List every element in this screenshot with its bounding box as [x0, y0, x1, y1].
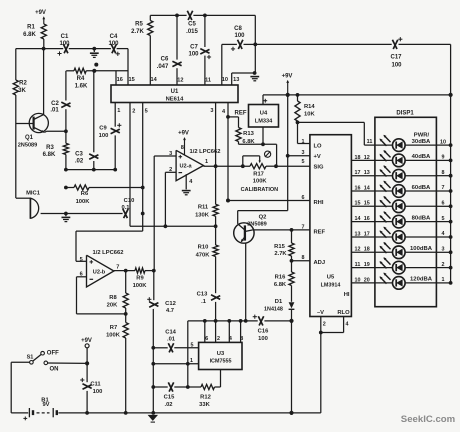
node C6 tap: [175, 14, 179, 18]
pin 13 label: [233, 77, 239, 83]
wire C1 to gnd node: [69, 48, 111, 50]
resistor R9: [133, 268, 154, 289]
svg-text:5: 5: [80, 257, 83, 263]
pin 6 label U5: [302, 195, 305, 201]
wire pin 13 elbow: [232, 73, 256, 85]
pin 1 label U5: [302, 139, 305, 145]
diode D1: [264, 299, 294, 321]
svg-text:6.8K: 6.8K: [23, 32, 36, 38]
node rail 1: [449, 143, 453, 147]
pin 2 label U5: [323, 322, 326, 328]
node C1-C4 junction: [92, 47, 96, 51]
node R15 top: [290, 228, 294, 232]
wire LED6 to rail: [436, 221, 450, 223]
microphone MIC1: [16, 190, 41, 218]
wire right rail: [450, 44, 452, 282]
svg-text:15: 15: [128, 77, 134, 83]
node R8-R7: [124, 312, 128, 316]
wire U5 pin 17 to DISP pin 13: [351, 175, 375, 177]
node pin4 tap: [227, 319, 231, 323]
svg-text:R17: R17: [253, 172, 264, 178]
node rail 10: [449, 281, 453, 285]
wire top-right corner: [254, 15, 256, 73]
potentiometer R17: [241, 156, 279, 193]
svg-text:R10: R10: [198, 245, 209, 251]
pin 2 label U3: [217, 336, 220, 342]
label 80dBA: [412, 215, 431, 221]
wire U2-a +in: [154, 156, 176, 271]
wire U4 top lead: [262, 95, 264, 105]
wire U5 pin 13 to DISP pin 17: [351, 236, 375, 238]
wire R2 to Q1 base: [15, 95, 17, 124]
svg-text:6.8K: 6.8K: [274, 282, 287, 288]
battery B1: [23, 397, 56, 420]
node pin2 tap: [214, 319, 218, 323]
svg-text:.02: .02: [164, 402, 172, 408]
node U4 out: [261, 142, 265, 146]
node rail 6: [449, 220, 453, 224]
svg-text:100: 100: [234, 33, 245, 39]
node R7 gnd: [124, 411, 128, 415]
svg-text:1: 1: [442, 277, 445, 283]
node ADJ: [290, 259, 294, 263]
svg-text:+9V: +9V: [81, 338, 92, 344]
wire C17 row: [255, 43, 450, 45]
svg-text:LM3914: LM3914: [321, 283, 341, 289]
wire gnd vertical: [152, 309, 154, 413]
svg-text:12: 12: [177, 77, 183, 83]
svg-text:U2-a: U2-a: [179, 164, 192, 170]
resistor R4: [74, 68, 88, 89]
wire U3 pin2: [215, 321, 217, 343]
capacitor C10: [121, 198, 134, 218]
svg-text:Q1: Q1: [25, 135, 34, 141]
transistor Q2: [234, 214, 267, 243]
wire pin2 drop: [129, 103, 131, 227]
svg-text:8: 8: [181, 145, 184, 151]
svg-text:5: 5: [302, 159, 305, 165]
pin 15 label: [128, 77, 134, 83]
wire U2-a out: [204, 165, 251, 167]
wire C14 row: [153, 347, 198, 349]
wire pin1 row: [153, 363, 198, 365]
svg-text:C5: C5: [188, 21, 196, 27]
pin 15 label: [355, 201, 361, 207]
svg-text:.02: .02: [75, 159, 84, 165]
svg-text:40dBA: 40dBA: [412, 154, 431, 160]
svg-text:NE614: NE614: [166, 96, 185, 102]
svg-text:RLO: RLO: [337, 310, 350, 316]
svg-text:4: 4: [442, 231, 445, 237]
wire 9V drop to +V: [287, 95, 289, 211]
wire U3 pin6: [204, 321, 206, 343]
svg-text:HI: HI: [344, 292, 350, 298]
wire Q2 emitter: [245, 243, 247, 321]
svg-text:.015: .015: [186, 29, 198, 35]
svg-text:16: 16: [117, 77, 123, 83]
capacitor C3: [75, 71, 99, 170]
node C3 bottom: [92, 168, 96, 172]
switch S1: [27, 351, 60, 373]
ground at top rail: [90, 49, 99, 58]
pin 1 label: [442, 277, 445, 283]
IC U1 NE614: [111, 85, 238, 103]
svg-text:C8: C8: [234, 26, 242, 32]
svg-text:C16: C16: [258, 328, 269, 334]
wire R4 row: [66, 70, 128, 72]
node R1-C1: [42, 47, 46, 51]
svg-text:100: 100: [108, 41, 119, 47]
wire left rail down: [15, 49, 17, 80]
svg-text:Q2: Q2: [259, 214, 267, 220]
resistor R3: [43, 131, 69, 169]
svg-text:R4: R4: [77, 76, 85, 82]
pin 10 label: [440, 139, 446, 145]
LED display DISP1 box: [375, 111, 437, 307]
pin 10 label: [222, 77, 228, 83]
svg-text:13: 13: [233, 77, 239, 83]
ground near pin 13: [250, 77, 259, 81]
label 60dBA: [412, 185, 431, 191]
op-amp U2-b: [80, 250, 124, 287]
capacitor C11: [80, 363, 102, 413]
node R4 right: [92, 69, 96, 73]
svg-text:C7: C7: [190, 44, 198, 50]
power +9V rail arrow: [282, 74, 293, 95]
node R6 left: [64, 186, 68, 190]
svg-text:R7: R7: [110, 325, 117, 331]
wire LED2 to rail: [436, 159, 450, 161]
node stray junction dot: [94, 63, 98, 67]
svg-text:5: 5: [442, 216, 445, 222]
node C8 right: [253, 43, 257, 47]
wire C15 row: [153, 386, 201, 388]
wire U5 pin 18 to DISP pin 12: [351, 159, 375, 161]
capacitor C17: [390, 37, 402, 68]
svg-text:C1: C1: [61, 34, 69, 40]
svg-text:C6: C6: [161, 56, 169, 62]
wire Q1 emitter to node: [44, 131, 66, 132]
wire LED10 to rail: [436, 282, 450, 284]
pin 14 label: [364, 185, 370, 191]
svg-text:R14: R14: [304, 104, 315, 110]
node C15 left: [151, 385, 155, 389]
svg-text:C3: C3: [75, 152, 83, 158]
power +9V U2a: [178, 131, 189, 155]
svg-text:16: 16: [364, 216, 370, 222]
svg-text:4.7: 4.7: [166, 308, 174, 314]
pin 11 label: [205, 77, 211, 83]
wire switch feed: [11, 362, 29, 413]
wire pin5 drop: [142, 103, 144, 232]
wire U2-b +in: [76, 231, 143, 261]
svg-text:SIG: SIG: [314, 165, 324, 171]
ground mic: [62, 214, 71, 222]
capacitor C13: [197, 292, 221, 321]
pin 6 label: [442, 201, 445, 207]
svg-text:4: 4: [229, 336, 232, 342]
svg-text:15: 15: [364, 201, 370, 207]
node U3 gnd row: [186, 362, 190, 366]
svg-text:LM334: LM334: [255, 118, 273, 124]
svg-text:100K: 100K: [106, 332, 121, 338]
pin 5 label U3: [191, 342, 194, 348]
svg-text:12: 12: [364, 155, 370, 161]
svg-text:100K: 100K: [76, 199, 91, 205]
svg-text:1: 1: [190, 358, 193, 364]
svg-text:.01: .01: [50, 108, 59, 114]
svg-text:19: 19: [364, 262, 370, 268]
wire LED4 to rail: [436, 190, 450, 192]
pin 15 label: [364, 201, 370, 207]
pin 8 label U5: [302, 255, 305, 261]
svg-text:8: 8: [240, 336, 243, 342]
svg-text:ON: ON: [50, 367, 59, 373]
pin 4 label: [222, 109, 226, 115]
svg-text:8: 8: [302, 255, 305, 261]
capacitor C14: [165, 329, 176, 352]
svg-text:+9V: +9V: [35, 10, 46, 16]
node gnd line mid: [151, 362, 155, 366]
wire mic bottom row: [41, 213, 123, 215]
pin 14 label: [355, 216, 361, 222]
wire corner down to pin 15: [127, 49, 129, 85]
svg-text:100: 100: [258, 336, 268, 342]
node emitter bottom: [244, 319, 248, 323]
svg-text:8: 8: [442, 170, 445, 176]
resistor R12: [199, 384, 220, 407]
svg-text:11: 11: [367, 139, 373, 145]
wire U5 pins 2-4: [321, 317, 344, 333]
svg-text:C17: C17: [390, 55, 402, 61]
svg-text:RHI: RHI: [314, 200, 324, 206]
svg-text:U3: U3: [217, 351, 225, 357]
svg-text:120dBA: 120dBA: [410, 277, 433, 283]
wire ADJ row: [292, 260, 310, 262]
capacitor C15: [164, 382, 175, 407]
svg-text:D1: D1: [275, 299, 283, 305]
capacitor C12: [147, 271, 176, 314]
wire U5 minusV drop: [320, 333, 322, 413]
pin 1 label U3: [190, 358, 193, 364]
svg-text:C15: C15: [164, 394, 175, 400]
wire pin 16 stub: [115, 71, 117, 85]
svg-text:S1: S1: [27, 355, 34, 361]
pin 10 label: [355, 277, 361, 283]
node mic gnd: [64, 212, 68, 216]
svg-text:R15: R15: [274, 244, 285, 250]
svg-text:R2: R2: [19, 81, 27, 87]
svg-text:10K: 10K: [304, 111, 315, 117]
svg-text:MIC1: MIC1: [26, 190, 41, 196]
wire ON row: [48, 362, 88, 364]
transistor Q1: [16, 113, 49, 148]
wire ground bus: [87, 412, 321, 414]
svg-text:U1: U1: [171, 89, 179, 95]
pin 7 label: [442, 185, 445, 191]
wire mid-left row: [66, 169, 115, 171]
pin 20 label: [364, 277, 370, 283]
svg-text:2.7K: 2.7K: [274, 251, 287, 257]
pin 5 label: [145, 109, 148, 115]
wire Q2 base elbow: [238, 211, 288, 224]
svg-text:14: 14: [355, 216, 361, 222]
svg-text:R12: R12: [200, 394, 211, 400]
svg-text:30dBA: 30dBA: [412, 139, 431, 145]
svg-text:6.8K: 6.8K: [43, 152, 56, 158]
node R14 bottom: [296, 121, 300, 125]
svg-text:ADJ: ADJ: [314, 260, 326, 266]
resistor R1: [23, 24, 46, 39]
svg-text:OFF: OFF: [47, 351, 59, 357]
svg-text:2N5089: 2N5089: [247, 222, 267, 228]
node RHI junction: [226, 199, 230, 203]
node R12 left: [186, 385, 190, 389]
svg-text:11: 11: [355, 262, 361, 268]
trimmer mark: [265, 151, 271, 157]
node R17 left: [241, 164, 245, 168]
pin 3 label: [210, 108, 213, 114]
svg-text:C9: C9: [99, 126, 107, 132]
wire +9V bus: [263, 94, 451, 96]
pin 8 label: [442, 170, 445, 176]
svg-text:100K: 100K: [133, 283, 148, 289]
svg-text:6: 6: [302, 195, 305, 201]
resistor R11: [195, 166, 218, 226]
pin 3 label: [442, 247, 445, 253]
svg-text:18: 18: [364, 247, 370, 253]
wire U1 pin 4 drop: [227, 103, 229, 201]
svg-text:0.1: 0.1: [121, 205, 130, 211]
IC U4 LM334: [249, 99, 279, 127]
svg-text:+9V: +9V: [178, 131, 189, 137]
svg-text:R9: R9: [136, 276, 144, 282]
pin 12 label: [364, 155, 370, 161]
LED 10: [375, 273, 437, 290]
node pin2-4 join: [319, 331, 323, 335]
label 120dBA: [410, 277, 433, 283]
svg-text:R1: R1: [27, 24, 35, 30]
svg-text:7: 7: [116, 264, 119, 270]
wire U4 bottom lead: [262, 127, 264, 144]
capacitor C16: [253, 315, 269, 342]
wire U5 pin 11 to DISP pin 19: [351, 267, 375, 269]
node rail 8: [449, 250, 453, 254]
pin 6 label U3: [205, 336, 208, 342]
svg-text:2N5089: 2N5089: [18, 143, 38, 149]
wire R6 row: [66, 187, 143, 189]
LED 9: [375, 257, 437, 274]
wire osc top row: [188, 320, 292, 322]
svg-text:R8: R8: [109, 295, 117, 301]
label 40dBA: [412, 154, 431, 160]
svg-text:7: 7: [442, 185, 445, 191]
svg-text:REF: REF: [235, 111, 247, 117]
LED 3: [375, 165, 437, 182]
node C14 left: [151, 346, 155, 350]
svg-text:14: 14: [150, 77, 157, 83]
node D1 ground: [289, 411, 293, 415]
wire U2-b out: [114, 270, 135, 272]
svg-text:60dBA: 60dBA: [412, 185, 431, 191]
wire AGC row: [130, 225, 216, 227]
pin 11 label: [355, 262, 361, 268]
pin 4 label: [442, 231, 445, 237]
svg-text:6: 6: [442, 201, 445, 207]
svg-text:10: 10: [222, 77, 228, 83]
pin 9 label: [442, 155, 445, 161]
svg-text:13: 13: [364, 170, 370, 176]
resistor R16: [274, 261, 294, 302]
svg-text:3: 3: [302, 150, 305, 156]
svg-text:80dBA: 80dBA: [412, 215, 431, 221]
node +V tap: [286, 154, 290, 158]
node R8 tap: [124, 269, 128, 273]
wire U3 pin4: [228, 321, 230, 343]
node rail 2: [449, 159, 453, 163]
pin 3 label U5: [302, 150, 305, 156]
wire LED5 to rail: [436, 205, 450, 207]
pin 16 label: [364, 216, 370, 222]
pin 1 label: [117, 108, 120, 114]
node right rail 9V: [449, 93, 453, 97]
svg-text:6: 6: [205, 336, 208, 342]
svg-text:1.6K: 1.6K: [75, 84, 88, 90]
svg-text:1: 1: [117, 108, 120, 114]
wire U3 pin8: [240, 321, 242, 343]
svg-text:+V: +V: [314, 154, 321, 160]
svg-text:18: 18: [355, 155, 361, 161]
svg-text:7: 7: [302, 224, 305, 230]
svg-text:9V: 9V: [42, 402, 49, 408]
svg-text:U2-b: U2-b: [93, 269, 106, 275]
svg-text:10: 10: [440, 139, 446, 145]
wire R12 to U3: [220, 370, 222, 388]
node switch-9V: [85, 361, 89, 365]
svg-text:33K: 33K: [199, 402, 210, 408]
svg-text:CALIBRATION: CALIBRATION: [241, 187, 279, 193]
wire +in drop: [153, 270, 155, 272]
svg-text:DISP1: DISP1: [396, 111, 414, 117]
LED 2: [375, 150, 437, 167]
wire gnd drop left: [187, 321, 189, 387]
wire LED1 to rail: [436, 144, 450, 146]
wire U2-a -in: [165, 172, 176, 226]
pin 12 label: [355, 247, 361, 253]
svg-text:C11: C11: [90, 381, 101, 387]
pin 13 label: [355, 231, 361, 237]
svg-text:.01: .01: [167, 337, 176, 343]
svg-text:R6: R6: [81, 191, 89, 197]
node -in to AGC: [164, 224, 168, 228]
resistor R10: [196, 226, 219, 293]
wire LED8 to rail: [436, 251, 450, 253]
node R6 right: [141, 186, 145, 190]
svg-text:R11: R11: [198, 205, 209, 211]
svg-text:130K: 130K: [195, 213, 210, 219]
node C10 right: [141, 212, 145, 216]
svg-text:R13: R13: [243, 131, 254, 137]
node out-pin3: [214, 164, 218, 168]
pin 4 label U5: [346, 322, 349, 328]
svg-text:1/2 LPC662: 1/2 LPC662: [93, 250, 124, 256]
node rail 9: [449, 266, 453, 270]
ground main: [148, 415, 158, 422]
wire U5 pin 14 to DISP pin 16: [351, 221, 375, 223]
pin 2 label: [132, 109, 135, 115]
svg-text:15: 15: [355, 201, 361, 207]
pin 4 label U3: [229, 336, 232, 342]
